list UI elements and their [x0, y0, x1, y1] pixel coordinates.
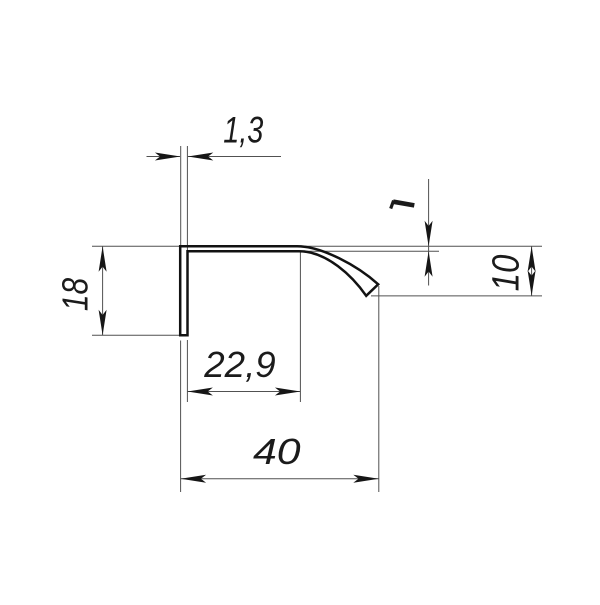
svg-text:40: 40 — [253, 432, 301, 472]
wire: extension line 40 left — [180, 341, 182, 493]
wire: extension line for 1,3 (inner face) — [186, 146, 188, 251]
arrowheads of dimension 10 — [528, 246, 536, 271]
wire: top surface extension to the right (for 1 and 10) — [301, 245, 542, 247]
wire: extension line 18 bottom — [92, 334, 179, 336]
wire: dimension line 40 — [181, 478, 379, 480]
wire: extension line 40 right — [378, 286, 380, 492]
wire: dimension line 1,3 left part — [147, 156, 181, 158]
wire: inner surface extension (for 1) — [303, 250, 439, 252]
arrowheads of dimension 1,3 — [155, 153, 181, 161]
wire: extension line 22,9 left — [186, 340, 188, 402]
wire: dimension line 22,9 — [187, 391, 300, 393]
wire: extension line 18 top — [92, 245, 179, 247]
wire: bottom tip extension to the right (for 10) — [371, 295, 542, 297]
arrowheads of dimension 40 — [181, 475, 207, 483]
wire: dimension line 10 (vertical) — [531, 246, 533, 296]
wire: dimension line 18 (vertical) — [102, 246, 104, 335]
svg-text:1,3: 1,3 — [223, 110, 264, 151]
profile cross-section outline — [180, 246, 378, 335]
wire: dimension line 1 (vertical) — [428, 179, 430, 286]
wire: dimension line 1,3 right part with leader — [188, 156, 281, 158]
dimension label 1 (rotated digit drawn as strokes) — [391, 201, 415, 209]
wire: extension line for 1,3 (outer face) — [180, 146, 182, 246]
svg-text:22,9: 22,9 — [203, 345, 275, 386]
arrowheads of dimension 1 — [425, 221, 433, 247]
svg-text:18: 18 — [56, 277, 96, 311]
arrowheads of dimension 22,9 — [187, 388, 213, 396]
wire: extension line 22,9 right — [299, 253, 301, 403]
svg-text:10: 10 — [484, 254, 527, 291]
arrowheads of dimension 18 — [99, 246, 107, 271]
